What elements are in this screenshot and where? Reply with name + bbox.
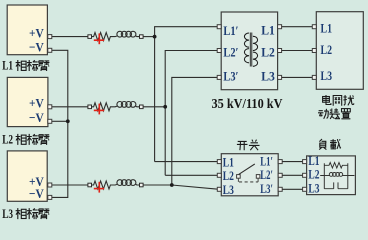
wire: transformer L3 to grid device <box>282 76 313 78</box>
label +V/-V texts <box>29 26 44 202</box>
wire: switch L1' to load <box>282 161 302 163</box>
transformer pin L1 <box>278 25 282 29</box>
transformer secondary winding <box>253 36 258 66</box>
load capacitor <box>324 182 348 188</box>
grid device pin L3 <box>312 75 316 79</box>
caption: 动装置 (grid disturbance line 2) <box>318 108 350 119</box>
terminal +V of L2 arm <box>48 105 52 109</box>
transformer pin L2 <box>278 49 282 53</box>
terminal -V of L2 arm <box>48 119 52 123</box>
load resistor <box>324 163 348 169</box>
transformer pin L2-prime <box>217 49 221 53</box>
switch contact left <box>237 175 241 179</box>
terminal +V of L1 arm <box>48 35 52 39</box>
transformer pin L3-prime <box>217 75 221 79</box>
bridge-arm box captions (L1/L2/L3 latin part) <box>2 58 13 221</box>
switch pin L1 left <box>217 160 221 164</box>
junction: -V bus / L2 arm <box>66 119 70 123</box>
wire: transformer L1 to grid device <box>282 26 313 28</box>
terminal -V of L1 arm <box>48 48 52 52</box>
resistor R3 and inductor Lc in series (L3 arm output branch) <box>52 180 143 189</box>
transformer pin L1-prime <box>217 25 221 29</box>
transformer T1 box 35kV/110kV <box>221 12 277 90</box>
switch pin L3' right <box>278 187 282 191</box>
caption: L3 相桥臂 <box>16 208 50 219</box>
wire: transformer L2 to grid device <box>282 50 313 52</box>
junction: node B <box>163 105 167 109</box>
load pin L3 <box>303 187 307 191</box>
junction: node A <box>153 35 157 39</box>
grid device pin L1 <box>312 25 316 29</box>
wire: phase C net (row3 to transformer L3-prime and switch L3) <box>143 77 219 189</box>
red adjustment arrow on resistor R3 <box>94 182 104 193</box>
35 kV/110 kV label <box>212 97 283 112</box>
switch linkage dashed <box>238 178 258 182</box>
caption: 电网扰 (grid disturbance line 1) <box>323 95 355 106</box>
L1 bridge-arm box <box>7 5 47 55</box>
caption: 负载 (load) <box>319 139 341 150</box>
grid device internal labels <box>321 20 333 83</box>
transformer primary winding <box>244 33 249 63</box>
load pin L1 <box>303 160 307 164</box>
wire: -V common bus <box>52 50 68 197</box>
switch internal labels <box>223 153 273 197</box>
load RLC network frame <box>320 163 354 188</box>
switch pin L1' right <box>278 160 282 164</box>
terminal +V of L3 arm <box>48 183 52 187</box>
load pin L2 <box>303 173 307 177</box>
wire: switch L3' to load <box>282 188 302 190</box>
L2 bridge-arm box <box>7 77 48 126</box>
switch box <box>221 154 278 196</box>
load inductor <box>324 173 348 177</box>
wire: switch L2' to load <box>282 174 302 176</box>
caption: L2 相桥臂 <box>16 134 50 145</box>
load internal labels <box>308 153 319 195</box>
wire: phase A net (row1 to transformer L1-prime and switch L1) <box>143 27 219 162</box>
red adjustment arrow on resistor R2 <box>94 104 104 115</box>
caption: 开关 (switch) <box>237 140 260 151</box>
resistor R2 and inductor Lb in series (L2 arm output branch) <box>52 102 143 111</box>
transformer pin L3 <box>278 75 282 79</box>
switch blade <box>239 164 255 174</box>
caption: L1 相桥臂 <box>16 60 50 71</box>
transformer internal labels <box>223 23 275 84</box>
switch contact right <box>256 175 260 179</box>
load box <box>307 156 356 195</box>
resistor R1 and inductor La in series (L1 arm output branch) <box>52 31 143 40</box>
grid disturbance device box <box>316 12 363 90</box>
switch pin L2' right <box>278 173 282 177</box>
L3 bridge-arm box <box>7 151 47 201</box>
junction: node C <box>170 183 174 187</box>
transformer core <box>250 33 252 67</box>
red adjustment arrow on resistor R1 <box>94 33 104 44</box>
switch pin L2 left <box>217 173 221 177</box>
grid device pin L2 <box>312 49 316 53</box>
terminal -V of L3 arm <box>48 195 52 199</box>
wire: phase B net (row2 to transformer L2-prime and switch L2) <box>143 51 219 176</box>
switch pin L3 left <box>217 187 221 191</box>
